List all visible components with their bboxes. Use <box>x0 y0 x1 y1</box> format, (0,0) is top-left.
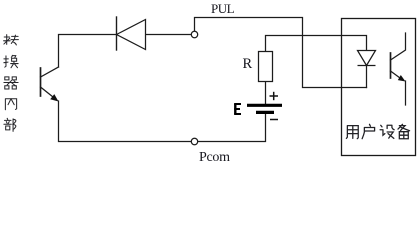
svg-text:R: R <box>243 56 253 72</box>
svg-text:PUL: PUL <box>211 1 235 16</box>
svg-text:Pcom: Pcom <box>199 150 230 164</box>
